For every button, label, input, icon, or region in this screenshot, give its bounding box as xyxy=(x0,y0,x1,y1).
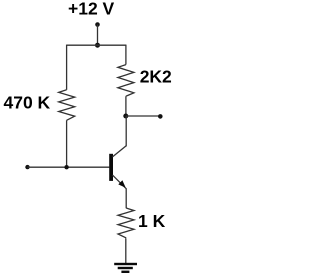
junction supply rail xyxy=(95,43,100,48)
wire base xyxy=(28,166,110,168)
wire emitter vertical xyxy=(125,188,127,208)
resistor R2 2K2 xyxy=(118,65,134,97)
svg-text:1 K: 1 K xyxy=(138,211,166,231)
ground bar 1 xyxy=(114,263,137,265)
transistor Q1 emitter lead xyxy=(113,175,127,189)
transistor Q1 emitter arrowhead xyxy=(118,180,125,188)
svg-text:+12 V: +12 V xyxy=(68,0,115,19)
transistor Q1 base bar xyxy=(109,154,113,181)
ground bar 3 xyxy=(121,271,129,273)
wire 2K2 bottom xyxy=(125,96,127,116)
svg-text:470 K: 470 K xyxy=(4,93,51,113)
wire left branch lower xyxy=(66,120,68,167)
wire left branch upper xyxy=(66,45,68,90)
node input terminal xyxy=(25,165,29,169)
ground bar 2 xyxy=(118,267,133,269)
wire collector vertical xyxy=(125,116,127,146)
wire 2K2 top xyxy=(125,45,127,65)
svg-text:2K2: 2K2 xyxy=(140,67,172,87)
transistor Q1 xyxy=(109,146,126,189)
wire to ground xyxy=(125,238,127,263)
junction collector node xyxy=(123,114,128,119)
junction base node xyxy=(64,165,68,169)
wire supply rail xyxy=(67,44,126,46)
transistor Q1 collector lead xyxy=(113,146,127,157)
node output terminal xyxy=(158,114,163,119)
resistor R1 470 K xyxy=(59,90,75,121)
resistor R3 1 K xyxy=(118,208,134,238)
wire output xyxy=(126,115,161,117)
node +12V supply terminal xyxy=(95,22,100,27)
ground xyxy=(114,263,137,273)
wire supply tap xyxy=(97,25,99,46)
